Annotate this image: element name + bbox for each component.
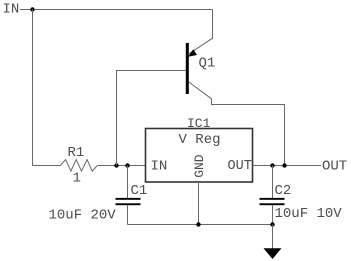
- capacitor C2 plates: [260, 198, 285, 200]
- wire top rail from IN to Q1 emitter: [20, 9, 213, 11]
- capacitor C2 top lead: [272, 166, 274, 199]
- junction ground node: [270, 222, 274, 226]
- ground: [264, 248, 282, 259]
- wire IC1 OUT pin to OUT: [253, 165, 322, 167]
- junction base node: [114, 163, 118, 167]
- capacitor C2 bottom lead: [272, 205, 274, 224]
- capacitor C1 plates: [116, 198, 141, 200]
- svg-text:IN: IN: [3, 2, 20, 18]
- junction IN node: [30, 7, 34, 11]
- svg-text:GND: GND: [192, 154, 207, 178]
- transistor Q1 emitter arrow: [188, 49, 197, 57]
- transistor Q1 emitter wire: [189, 10, 213, 54]
- svg-text:R1: R1: [68, 145, 85, 161]
- svg-text:OUT: OUT: [228, 159, 252, 174]
- wire left rail down to R1: [33, 10, 61, 166]
- wire R1 to IC1 IN pin: [97, 165, 145, 167]
- svg-text:10uF 10V: 10uF 10V: [275, 206, 343, 222]
- svg-text:V Reg: V Reg: [179, 132, 221, 148]
- op-amp U1 regulator box IC1: [146, 129, 253, 183]
- svg-text:IN: IN: [151, 159, 168, 175]
- svg-text:IC1: IC1: [187, 116, 211, 131]
- wire ground rail: [128, 224, 273, 226]
- svg-text:C2: C2: [275, 183, 292, 199]
- resistor R1: [60, 160, 97, 172]
- transistor Q1 collector wire: [189, 82, 285, 166]
- wire ground stem: [272, 225, 274, 250]
- svg-text:OUT: OUT: [322, 159, 347, 175]
- capacitor C1 top lead: [127, 166, 129, 199]
- svg-text:C1: C1: [131, 183, 148, 199]
- junction GND pin node: [196, 222, 200, 226]
- wire IC1 GND pin: [198, 182, 200, 225]
- junction C2 node: [270, 163, 274, 167]
- svg-text:10uF 20V: 10uF 20V: [49, 208, 117, 224]
- junction C1 node: [125, 163, 129, 167]
- svg-text:Q1: Q1: [199, 56, 216, 72]
- junction collector node: [282, 163, 286, 167]
- wire Q1 base: [117, 71, 186, 166]
- transistor Q1 base bar: [186, 43, 189, 94]
- svg-text:1: 1: [73, 171, 81, 187]
- capacitor C1 bottom lead: [127, 205, 129, 224]
